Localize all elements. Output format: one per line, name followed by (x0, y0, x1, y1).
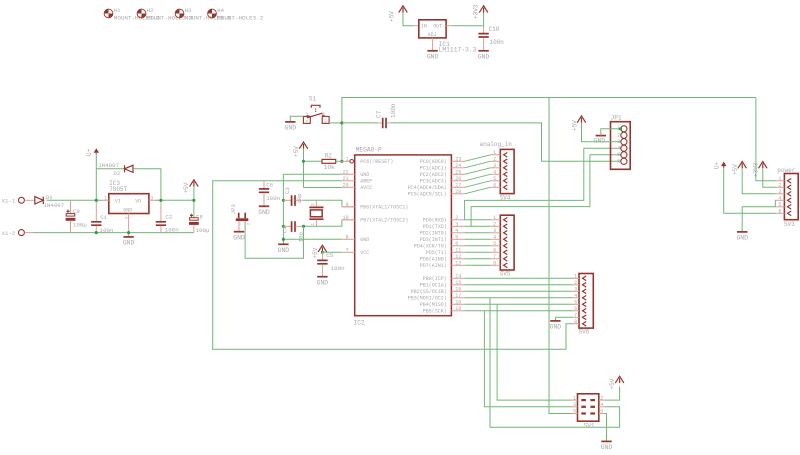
svg-text:9: 9 (346, 202, 349, 208)
wire GND to pin8 (283, 238, 342, 240)
svg-text:AVCC: AVCC (360, 185, 372, 191)
pin IC2-1 inversion circle (350, 160, 354, 164)
svg-text:GND: GND (258, 209, 270, 216)
svg-text:6: 6 (493, 182, 496, 188)
svg-text:100µ: 100µ (73, 222, 87, 229)
pin IC2-15 PB1(OC1A) (451, 284, 464, 286)
svg-text:100µ: 100µ (196, 227, 210, 234)
svg-text:D2: D2 (113, 170, 120, 177)
junction C4/GND vertical (282, 225, 285, 228)
pin IC2-11 PD5(T1) (451, 251, 464, 253)
svg-text:1: 1 (574, 273, 577, 279)
pin SV6-1 (573, 277, 579, 279)
svg-text:13: 13 (455, 260, 461, 266)
wire RESET to SV1 pin5 (549, 98, 572, 414)
svg-text:4: 4 (617, 145, 620, 151)
svg-text:GND: GND (594, 138, 605, 145)
jumper JP3 (239, 213, 246, 219)
svg-text:IC2: IC2 (354, 320, 365, 327)
wire C7 to JP1 pin6 (391, 123, 621, 161)
svg-text:22: 22 (343, 169, 349, 175)
svg-text:4: 4 (493, 234, 496, 240)
pin IC2-26 PC3(ADC3) (451, 180, 464, 182)
svg-text:19: 19 (455, 306, 461, 312)
capacitor C10 plates (478, 34, 488, 37)
ground GND (JP1) (596, 135, 606, 137)
pin IC1 OUT stub (446, 25, 452, 27)
pin JP1-4 (621, 145, 627, 151)
svg-text:24: 24 (455, 163, 461, 169)
wire PD6 to SV5-7 (465, 258, 491, 260)
capacitor C1 plates (91, 222, 101, 225)
wire VCC to pin7 (322, 251, 342, 253)
pin IC2-28 PC5(ADC5/SCL) (451, 193, 464, 195)
svg-text:PC4(ADC4/SDA): PC4(ADC4/SDA) (408, 185, 447, 191)
junction VCC/C5 (321, 251, 324, 254)
pin C6 lower stub (263, 193, 265, 206)
svg-text:+5V: +5V (732, 164, 739, 175)
svg-text:PC3(ADC3): PC3(ADC3) (420, 179, 447, 185)
pin C8 lower stub (193, 225, 195, 233)
microcontroller IC2 MEGA8-P box (355, 155, 452, 316)
connector SV3 box (784, 174, 798, 220)
svg-text:27: 27 (455, 182, 461, 188)
svg-text:H1: H1 (114, 7, 121, 14)
pin IC2-18 PB4(MISO) (451, 303, 464, 305)
svg-text:7: 7 (574, 312, 577, 318)
pin IC2-23 PC0(ADC0) (451, 160, 464, 162)
svg-text:GND: GND (360, 172, 369, 178)
svg-text:2: 2 (493, 221, 496, 227)
svg-text:GND: GND (317, 279, 329, 286)
svg-text:C1: C1 (100, 214, 107, 221)
wire JP3 pin2 to XTAL2 net (245, 221, 303, 258)
svg-text:ADJ: ADJ (428, 32, 437, 38)
capacitor C10 (483, 26, 485, 33)
crystal Q1 (315, 200, 317, 207)
svg-text:26: 26 (455, 176, 461, 182)
svg-text:10: 10 (343, 215, 349, 221)
svg-text:GND: GND (285, 125, 297, 132)
pin SV4-6 (491, 186, 501, 188)
pin IC2-17 PB3(MOSI/OC2) (451, 297, 464, 299)
svg-text:C5: C5 (326, 252, 333, 259)
svg-text:OUT: OUT (433, 24, 442, 30)
svg-text:PC6(/RESET): PC6(/RESET) (360, 159, 393, 165)
pin SV4-3 (491, 167, 501, 169)
svg-text:4: 4 (778, 195, 781, 201)
wire +5V to R2 (304, 160, 323, 162)
svg-text:+5V: +5V (571, 120, 578, 131)
pin SV1-4 (599, 406, 605, 408)
svg-text:GND: GND (233, 234, 245, 241)
pin IC2-1 stub (342, 160, 350, 162)
svg-text:+5V: +5V (609, 378, 616, 389)
wire +U to SV3 pin6 (724, 168, 776, 214)
wire MISO to SV1 pin1 (497, 304, 571, 400)
svg-text:4: 4 (600, 402, 603, 408)
svg-text:IN: IN (421, 24, 427, 30)
wire PB2 to SV6-3 (465, 290, 573, 292)
switch S1 lever and contacts (307, 113, 323, 118)
pin IC2-7 VCC (342, 251, 355, 253)
wire PD7 to SV5-8 (465, 264, 491, 266)
pin C2 lower stub (160, 226, 162, 233)
pin SV1-3 (572, 406, 578, 408)
wire S1 pin2 to junction (329, 122, 342, 124)
svg-text:GND: GND (478, 53, 490, 60)
supply +U arrow (left) (94, 148, 99, 153)
svg-text:1N4007: 1N4007 (43, 202, 64, 209)
pin SV1-1 (572, 399, 578, 401)
junction +5V/D2/C2 (159, 199, 162, 202)
svg-text:PB6(XTAL1/TOSC1): PB6(XTAL1/TOSC1) (360, 205, 408, 211)
svg-text:JP1: JP1 (611, 115, 622, 122)
svg-text:20: 20 (343, 182, 349, 188)
ground GND (JP3) (234, 231, 244, 233)
ground GND (crystal net) (278, 243, 288, 245)
wire D2 anode-side (96, 168, 124, 170)
svg-text:SV3: SV3 (784, 221, 795, 228)
pin SV1-2 (599, 399, 605, 401)
pin IC1 ADJ stub (432, 38, 434, 50)
pin JP1-5 (621, 152, 627, 158)
supply +3V3 arrow (IC1 out) (479, 6, 488, 13)
svg-text:SV6: SV6 (579, 329, 590, 336)
ground GND (SV6) (550, 320, 560, 322)
wire +5V to SV3 pin3 (742, 168, 775, 194)
mount hole H2 (137, 9, 146, 18)
pin IC2-3 PD1(TXD) (451, 225, 464, 227)
svg-text:5: 5 (493, 176, 496, 182)
pin JP3-1 stub to GND (238, 221, 240, 231)
pin SV5-6 (491, 251, 501, 253)
svg-text:16: 16 (455, 286, 461, 292)
svg-text:SV5: SV5 (500, 271, 511, 278)
pin SV6-5 (573, 303, 579, 305)
supply +5V arrow (R2) (299, 142, 308, 149)
pin JP1-1 (621, 126, 627, 132)
capacitor C3 plates (292, 195, 295, 206)
pin C10 lower stub (483, 38, 485, 51)
svg-text:VCC: VCC (360, 250, 369, 256)
pin IC2-10 stub (342, 219, 355, 221)
svg-text:+5V: +5V (293, 146, 300, 157)
svg-text:18: 18 (455, 299, 461, 305)
svg-text:GND: GND (123, 240, 135, 247)
svg-text:PB7(XTAL2/TOSC2): PB7(XTAL2/TOSC2) (360, 218, 408, 224)
switch S1 pin 2 box (322, 116, 329, 123)
capacitor C8 (electrolytic) (190, 218, 199, 221)
svg-text:2: 2 (600, 395, 603, 401)
svg-text:AREF: AREF (360, 179, 372, 185)
pin C3 left stub (283, 199, 291, 201)
pin SV6-8 (573, 323, 579, 325)
connector SV1 box (578, 394, 599, 421)
svg-text:GND: GND (736, 235, 748, 242)
pin C4 left stub (283, 225, 291, 227)
wire ADC2 to SV4-3 (465, 168, 491, 175)
svg-text:28: 28 (455, 189, 461, 195)
capacitor C6 on AREF (263, 181, 265, 189)
svg-text:2: 2 (324, 119, 327, 125)
svg-text:PD1(TXD): PD1(TXD) (423, 224, 447, 230)
svg-text:3: 3 (493, 228, 496, 234)
wire R2 to pin1 junction (336, 160, 342, 162)
pin SV3-5 (776, 206, 785, 208)
junction GND/IC3 (127, 231, 130, 234)
junction reset/switch line (340, 121, 343, 124)
svg-text:2: 2 (493, 156, 496, 162)
svg-text:1: 1 (323, 112, 326, 118)
svg-text:100n: 100n (490, 39, 505, 46)
svg-text:PD5(T1): PD5(T1) (426, 250, 447, 256)
pin IC2-27 PC4(ADC4/SDA) (451, 186, 464, 188)
junction +5V/R2 (302, 160, 305, 163)
svg-text:17: 17 (455, 293, 461, 299)
svg-text:3: 3 (573, 402, 576, 408)
pin SV3-6 (776, 212, 785, 214)
svg-text:GND: GND (278, 247, 290, 254)
svg-text:100n: 100n (331, 265, 345, 272)
wire RXD to JP1 pin4 (465, 148, 621, 220)
capacitor C5 (321, 252, 323, 259)
svg-text:3: 3 (455, 221, 458, 227)
svg-text:SV1: SV1 (584, 423, 595, 430)
svg-text:X1-2: X1-2 (2, 230, 16, 237)
pin SV4-2 (491, 160, 501, 162)
ground GND (SV3) (737, 231, 747, 233)
svg-text:15: 15 (455, 280, 461, 286)
pin JP1-3 (621, 139, 627, 145)
wire PD1 to SV5-2 (465, 225, 491, 227)
svg-text:5: 5 (574, 299, 577, 305)
pin C7 left stub (378, 122, 382, 124)
svg-text:GND: GND (550, 324, 562, 331)
svg-text:U+: U+ (714, 161, 721, 169)
svg-text:6: 6 (617, 158, 620, 164)
svg-text:PC2(ADC2): PC2(ADC2) (420, 172, 447, 178)
svg-text:21: 21 (343, 176, 349, 182)
wire PD0 to SV5-1 (465, 219, 491, 221)
svg-text:GND: GND (601, 444, 613, 451)
pin IC2-13 PD7(AIN1) (451, 264, 464, 266)
svg-text:1: 1 (573, 395, 576, 401)
svg-text:5: 5 (493, 241, 496, 247)
svg-text:+3V3: +3V3 (752, 162, 759, 177)
wire XTAL2 to pin10 (304, 220, 342, 227)
supply +5V arrow (SV3) (738, 162, 747, 169)
svg-text:LM1117-3.3: LM1117-3.3 (439, 47, 477, 54)
svg-text:2: 2 (778, 182, 781, 188)
wire MOSI to SV1 pin4 (490, 298, 620, 427)
wire +5V stem down to AVCC row (303, 149, 305, 188)
pin IC3 GND stub (128, 214, 130, 237)
pin SV3-3 (776, 193, 785, 195)
wire ADC1 to SV4-2 (465, 161, 491, 168)
svg-text:1: 1 (778, 176, 781, 182)
pin IC3 VO stub (149, 199, 155, 201)
pin IC2-6 PD4(XCK/T0) (451, 245, 464, 247)
wire SV3 pin4 to GND net (774, 200, 776, 207)
svg-text:PD7(AIN1): PD7(AIN1) (420, 263, 447, 269)
ground GND (C5) (317, 276, 327, 278)
svg-text:100n: 100n (390, 103, 397, 118)
pin SV1-6 (599, 413, 605, 415)
svg-text:PB2(SS/OC1B): PB2(SS/OC1B) (411, 289, 447, 295)
pin SV6-3 (573, 290, 579, 292)
junction GND/C1 (95, 231, 98, 234)
connector SV6 box (579, 274, 593, 329)
ground GND (IC1 ADJ) (427, 50, 437, 52)
wire PB0 to SV6-1 (465, 277, 573, 279)
pin SV5-2 (491, 225, 501, 227)
svg-text:23: 23 (455, 156, 461, 162)
wire TXD to JP1 pin5 (471, 155, 620, 227)
pin SV6-7 (573, 316, 579, 318)
svg-text:4: 4 (574, 293, 577, 299)
capacitor C5 plates (317, 260, 327, 263)
pin SV1-5 (572, 413, 578, 415)
wire +5V stem to C8 (193, 186, 195, 217)
svg-text:PC0(ADC0): PC0(ADC0) (420, 159, 447, 165)
svg-text:U+: U+ (86, 148, 93, 156)
capacitor C1 (95, 200, 97, 221)
junction JP1 pin1 (619, 127, 622, 130)
svg-text:11: 11 (455, 247, 461, 253)
junction reset/R2/pin1 (340, 160, 343, 163)
svg-text:5: 5 (573, 409, 576, 415)
svg-text:4: 4 (493, 169, 496, 175)
junction GND/pin8 (282, 238, 285, 241)
svg-text:+3V3: +3V3 (473, 4, 480, 19)
wire AVCC (304, 187, 342, 189)
wire PD5 to SV5-6 (465, 251, 491, 253)
wire ADC5 to SV4-6 (465, 187, 491, 194)
svg-text:PD3(INT1): PD3(INT1) (420, 237, 447, 243)
svg-text:7: 7 (346, 247, 349, 253)
junction +U/C1 (95, 199, 98, 202)
pin IC2-14 PB0(ICP) (451, 277, 464, 279)
wire PD3 to SV5-4 (465, 238, 491, 240)
svg-text:VO: VO (135, 198, 141, 204)
resistor R2 10k (322, 159, 336, 163)
wire SV6 pin7 to GND (555, 317, 573, 320)
svg-text:1: 1 (346, 156, 349, 162)
connector SV4 box (500, 149, 514, 193)
wire +5V to IC1 IN (403, 13, 414, 26)
svg-text:GND: GND (360, 237, 369, 243)
svg-text:PB5(SCK): PB5(SCK) (423, 309, 447, 315)
switch S1 pin 4 box (303, 116, 310, 123)
voltage regulator IC3 7805T box (109, 194, 149, 214)
svg-text:C8: C8 (196, 214, 203, 221)
ground GND (IC3) (123, 236, 133, 238)
pin JP1-2 (621, 132, 627, 138)
svg-text:5: 5 (617, 152, 620, 158)
pin C9 lower stub (70, 221, 72, 233)
pin SV4-5 (491, 180, 501, 182)
capacitor C2 (160, 200, 162, 221)
svg-text:12: 12 (455, 254, 461, 260)
svg-text:5: 5 (455, 234, 458, 240)
svg-text:3: 3 (493, 163, 496, 169)
svg-text:4: 4 (455, 228, 458, 234)
supply +5V arrow (IC1 input) (399, 6, 408, 13)
svg-text:PB0(ICP): PB0(ICP) (423, 276, 447, 282)
svg-text:+5V: +5V (389, 11, 396, 22)
wire SCK to SV1 pin3 (484, 311, 571, 407)
svg-text:R2: R2 (325, 153, 333, 160)
supply +3V3 arrow (SV3) (759, 162, 768, 169)
svg-text:2: 2 (311, 203, 316, 206)
pin SV5-1 (491, 219, 501, 221)
pin SV5-4 (491, 238, 501, 240)
svg-text:100n: 100n (100, 227, 114, 234)
svg-text:7: 7 (493, 254, 496, 260)
svg-text:analog_in: analog_in (480, 141, 513, 148)
ground GND (S1) (285, 121, 295, 123)
pin IC2-22 GND (342, 173, 355, 175)
wire S1 to GND (290, 116, 303, 121)
svg-text:10k: 10k (324, 164, 335, 171)
pin C5 lower stub (321, 264, 323, 276)
svg-text:PD4(XCK/T0): PD4(XCK/T0) (414, 244, 447, 250)
wire ADC4 to SV4-5 (465, 181, 491, 188)
svg-text:C9: C9 (73, 208, 80, 215)
svg-text:6: 6 (778, 208, 781, 214)
mount hole H4 (208, 9, 217, 18)
svg-text:6: 6 (574, 306, 577, 312)
ground GND (SV1) (601, 440, 611, 442)
svg-text:8: 8 (493, 260, 496, 266)
junction C3/GND vertical (282, 199, 285, 202)
pin SV4-1 (491, 154, 501, 156)
pin IC2-16 PB2(SS/OC1B) (451, 290, 464, 292)
pin SV5-7 (491, 258, 501, 260)
wire PB4 to SV6-5 (465, 303, 573, 305)
wire XTAL1 to pin9 (303, 200, 342, 207)
svg-text:2: 2 (248, 222, 252, 225)
capacitor C2 plates (156, 222, 166, 225)
pin SV6-2 (573, 284, 579, 286)
pin IC1 IN stub (414, 25, 419, 27)
svg-text:25: 25 (455, 169, 461, 175)
svg-text:PD2(INT0): PD2(INT0) (420, 231, 447, 237)
svg-text:PC5(ADC5/SCL): PC5(ADC5/SCL) (408, 192, 447, 198)
wire RESET top bus (342, 98, 756, 162)
svg-text:3: 3 (305, 112, 308, 118)
svg-text:2: 2 (455, 215, 458, 221)
capacitor C7 plates (383, 118, 386, 128)
svg-text:GND: GND (123, 207, 132, 213)
wire PB5 to SV6-6 (465, 310, 573, 312)
wire SV1 pin2 to +5V (605, 386, 620, 400)
svg-text:5: 5 (778, 202, 781, 208)
svg-text:PD6(AIN0): PD6(AIN0) (420, 257, 447, 263)
pin IC2-10 PB7(XTAL2/TOSC2) (342, 219, 355, 221)
svg-text:14: 14 (455, 273, 461, 279)
mount hole H3 (175, 9, 184, 18)
pin C7 right stub (387, 122, 391, 124)
svg-text:C6: C6 (266, 182, 273, 189)
pin X1-2 stub (25, 232, 33, 234)
pin SV3-4 (776, 199, 785, 201)
svg-text:VI: VI (115, 198, 121, 204)
capacitor C9 (electrolytic) (70, 200, 72, 213)
wire +5V rail right of IC3 (155, 199, 194, 201)
pin IC2-9 stub (342, 206, 355, 208)
